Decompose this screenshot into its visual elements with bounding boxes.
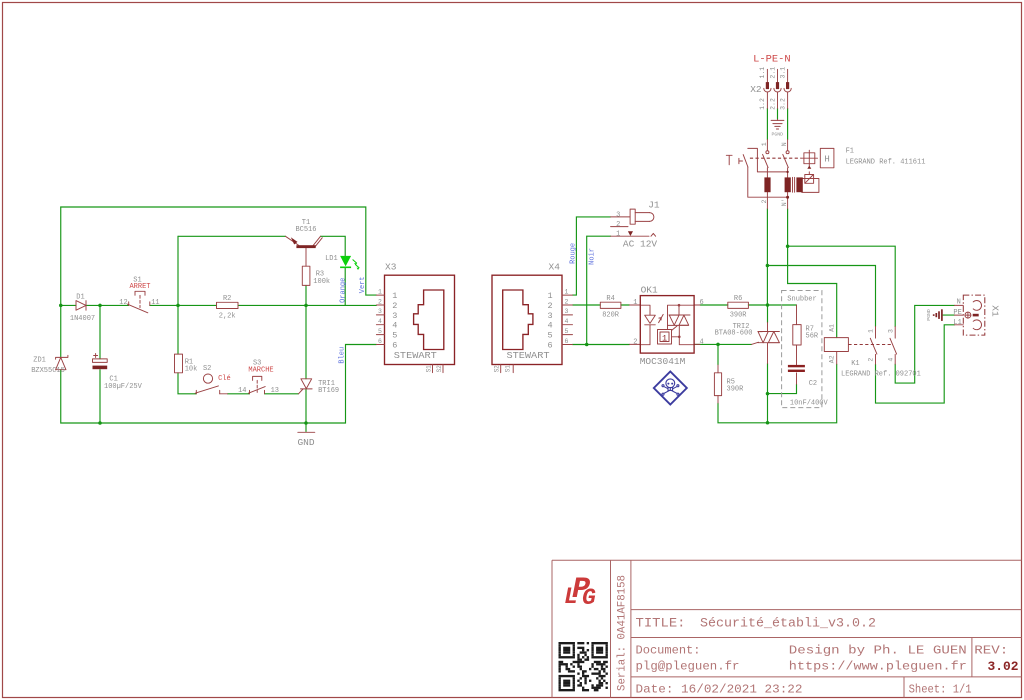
svg-text:4: 4 — [378, 318, 382, 325]
svg-text:4: 4 — [565, 318, 569, 325]
svg-text:REV:: REV: — [974, 643, 1008, 657]
svg-text:LEGRAND Ref. 092701: LEGRAND Ref. 092701 — [841, 371, 921, 379]
svg-text:MARCHE: MARCHE — [248, 366, 273, 374]
svg-text:1: 1 — [378, 288, 382, 295]
svg-text:6: 6 — [547, 340, 552, 350]
svg-text:Noir: Noir — [589, 248, 597, 265]
svg-text:3: 3 — [392, 311, 397, 321]
svg-text:3.02: 3.02 — [988, 660, 1019, 674]
svg-text:10k: 10k — [185, 366, 198, 374]
svg-text:3.2: 3.2 — [779, 98, 786, 110]
svg-text:3: 3 — [378, 308, 382, 315]
svg-text:BZX55C15: BZX55C15 — [31, 367, 65, 375]
svg-text:G: G — [582, 585, 596, 611]
svg-text:S1: S1 — [426, 365, 433, 373]
svg-text:X4: X4 — [549, 262, 561, 273]
svg-text:1: 1 — [868, 329, 875, 333]
svg-text:3.1: 3.1 — [779, 67, 786, 79]
svg-text:X2: X2 — [750, 84, 762, 95]
svg-text:5: 5 — [392, 331, 397, 341]
svg-text:100µF/25V: 100µF/25V — [104, 383, 143, 391]
svg-text:2: 2 — [633, 339, 637, 347]
svg-text:LD1: LD1 — [325, 255, 338, 263]
svg-text:1: 1 — [392, 291, 397, 301]
svg-text:Orange: Orange — [340, 278, 348, 303]
svg-text:Sécurité_établi_v3.0.2: Sécurité_établi_v3.0.2 — [700, 616, 876, 631]
svg-text:J1: J1 — [648, 199, 660, 210]
svg-text:1: 1 — [662, 334, 667, 344]
svg-text:2.1: 2.1 — [769, 67, 776, 79]
svg-text:2: 2 — [547, 301, 552, 311]
svg-text:390R: 390R — [727, 386, 745, 394]
svg-text:1: 1 — [547, 291, 552, 301]
svg-text:ARRET: ARRET — [129, 283, 150, 291]
svg-text:R2: R2 — [223, 295, 231, 303]
svg-text:D1: D1 — [76, 293, 84, 301]
svg-text:2: 2 — [378, 298, 382, 305]
svg-text:3: 3 — [887, 329, 894, 333]
svg-text:STEWART: STEWART — [394, 350, 437, 361]
svg-text:Sheet: 1/1: Sheet: 1/1 — [909, 682, 972, 696]
svg-text:2: 2 — [761, 199, 768, 203]
svg-text:5: 5 — [378, 328, 382, 335]
svg-text:N': N' — [781, 198, 788, 206]
svg-text:STEWART: STEWART — [507, 350, 550, 361]
svg-text:4: 4 — [887, 358, 894, 362]
svg-text:N: N — [781, 142, 788, 146]
svg-text:Document:: Document: — [636, 643, 701, 657]
svg-text:Serial: 0A41AF8158: Serial: 0A41AF8158 — [617, 575, 629, 691]
svg-text:1.2: 1.2 — [759, 98, 766, 110]
svg-text:BT169: BT169 — [318, 387, 339, 395]
svg-text:1: 1 — [616, 231, 620, 239]
svg-text:GND: GND — [297, 437, 314, 448]
svg-text:10nF/400V: 10nF/400V — [790, 399, 829, 407]
svg-text:S2: S2 — [203, 365, 211, 373]
svg-text:BC516: BC516 — [295, 226, 316, 234]
svg-text:R6: R6 — [734, 295, 742, 303]
svg-text:100k: 100k — [313, 278, 330, 286]
svg-text:A2: A2 — [828, 355, 835, 363]
svg-text:TITLE:: TITLE: — [636, 616, 686, 631]
svg-text:2,2k: 2,2k — [219, 312, 236, 320]
svg-text:2: 2 — [868, 358, 875, 362]
svg-text:1: 1 — [633, 299, 637, 307]
svg-text:Date: 16/02/2021 23:22: Date: 16/02/2021 23:22 — [636, 682, 803, 696]
svg-text:4: 4 — [547, 321, 552, 331]
svg-text:Vert: Vert — [359, 276, 367, 293]
svg-text:3: 3 — [616, 211, 620, 219]
svg-text:12: 12 — [119, 299, 127, 307]
svg-text:6: 6 — [700, 299, 704, 307]
svg-text:L1: L1 — [953, 319, 961, 327]
svg-text:Clé: Clé — [218, 375, 231, 383]
svg-text:L-PE-N: L-PE-N — [753, 55, 791, 66]
svg-text:820R: 820R — [602, 312, 620, 320]
svg-text:OK1: OK1 — [641, 285, 658, 296]
svg-text:BTA08-600: BTA08-600 — [715, 330, 753, 338]
svg-text:6: 6 — [565, 338, 569, 345]
svg-text:A1: A1 — [828, 324, 835, 332]
svg-text:N: N — [957, 299, 961, 307]
svg-text:390R: 390R — [730, 312, 748, 320]
svg-text:K1: K1 — [851, 360, 859, 368]
svg-text:H: H — [824, 155, 829, 165]
svg-text:2.2: 2.2 — [769, 98, 776, 110]
svg-text:3: 3 — [547, 311, 552, 321]
svg-text:13: 13 — [271, 387, 279, 395]
svg-text:11: 11 — [151, 299, 159, 307]
svg-text:1.1: 1.1 — [759, 67, 766, 79]
svg-text:2: 2 — [565, 298, 569, 305]
svg-text:F1: F1 — [846, 147, 854, 155]
svg-text:5: 5 — [547, 331, 552, 341]
svg-text:56R: 56R — [806, 333, 819, 341]
svg-text:MOC3041M: MOC3041M — [640, 356, 686, 367]
svg-text:5: 5 — [565, 328, 569, 335]
svg-text:S2: S2 — [494, 365, 501, 373]
svg-text:6: 6 — [378, 338, 382, 345]
svg-text:PGND: PGND — [926, 309, 932, 321]
svg-text:https://www.pleguen.fr: https://www.pleguen.fr — [789, 660, 967, 674]
svg-text:PE: PE — [953, 309, 961, 317]
svg-text:6: 6 — [392, 340, 397, 350]
svg-text:X3: X3 — [385, 262, 397, 273]
svg-text:R4: R4 — [606, 295, 614, 303]
svg-text:X1: X1 — [990, 305, 1001, 317]
svg-text:plg@pleguen.fr: plg@pleguen.fr — [636, 660, 740, 674]
svg-text:C2: C2 — [809, 380, 817, 388]
svg-text:S2: S2 — [436, 365, 443, 373]
svg-text:S1: S1 — [504, 365, 511, 373]
svg-text:4: 4 — [700, 339, 704, 347]
svg-text:LEGRAND Ref. 411611: LEGRAND Ref. 411611 — [846, 159, 926, 167]
svg-text:2: 2 — [392, 301, 397, 311]
svg-text:AC 12V: AC 12V — [623, 238, 658, 249]
svg-text:Rouge: Rouge — [570, 243, 578, 264]
svg-text:1: 1 — [565, 288, 569, 295]
svg-text:4: 4 — [392, 321, 397, 331]
svg-text:L: L — [564, 584, 578, 610]
svg-text:Snubber: Snubber — [787, 296, 816, 304]
svg-text:Design by Ph. LE GUEN: Design by Ph. LE GUEN — [789, 643, 967, 657]
svg-text:2: 2 — [616, 221, 620, 229]
svg-text:Bleu: Bleu — [338, 347, 346, 364]
svg-text:PGND: PGND — [772, 132, 784, 138]
svg-text:14: 14 — [238, 387, 246, 395]
svg-text:1N4007: 1N4007 — [70, 315, 95, 323]
svg-text:ZD1: ZD1 — [33, 356, 46, 364]
svg-text:1: 1 — [761, 142, 768, 146]
svg-text:3: 3 — [565, 308, 569, 315]
